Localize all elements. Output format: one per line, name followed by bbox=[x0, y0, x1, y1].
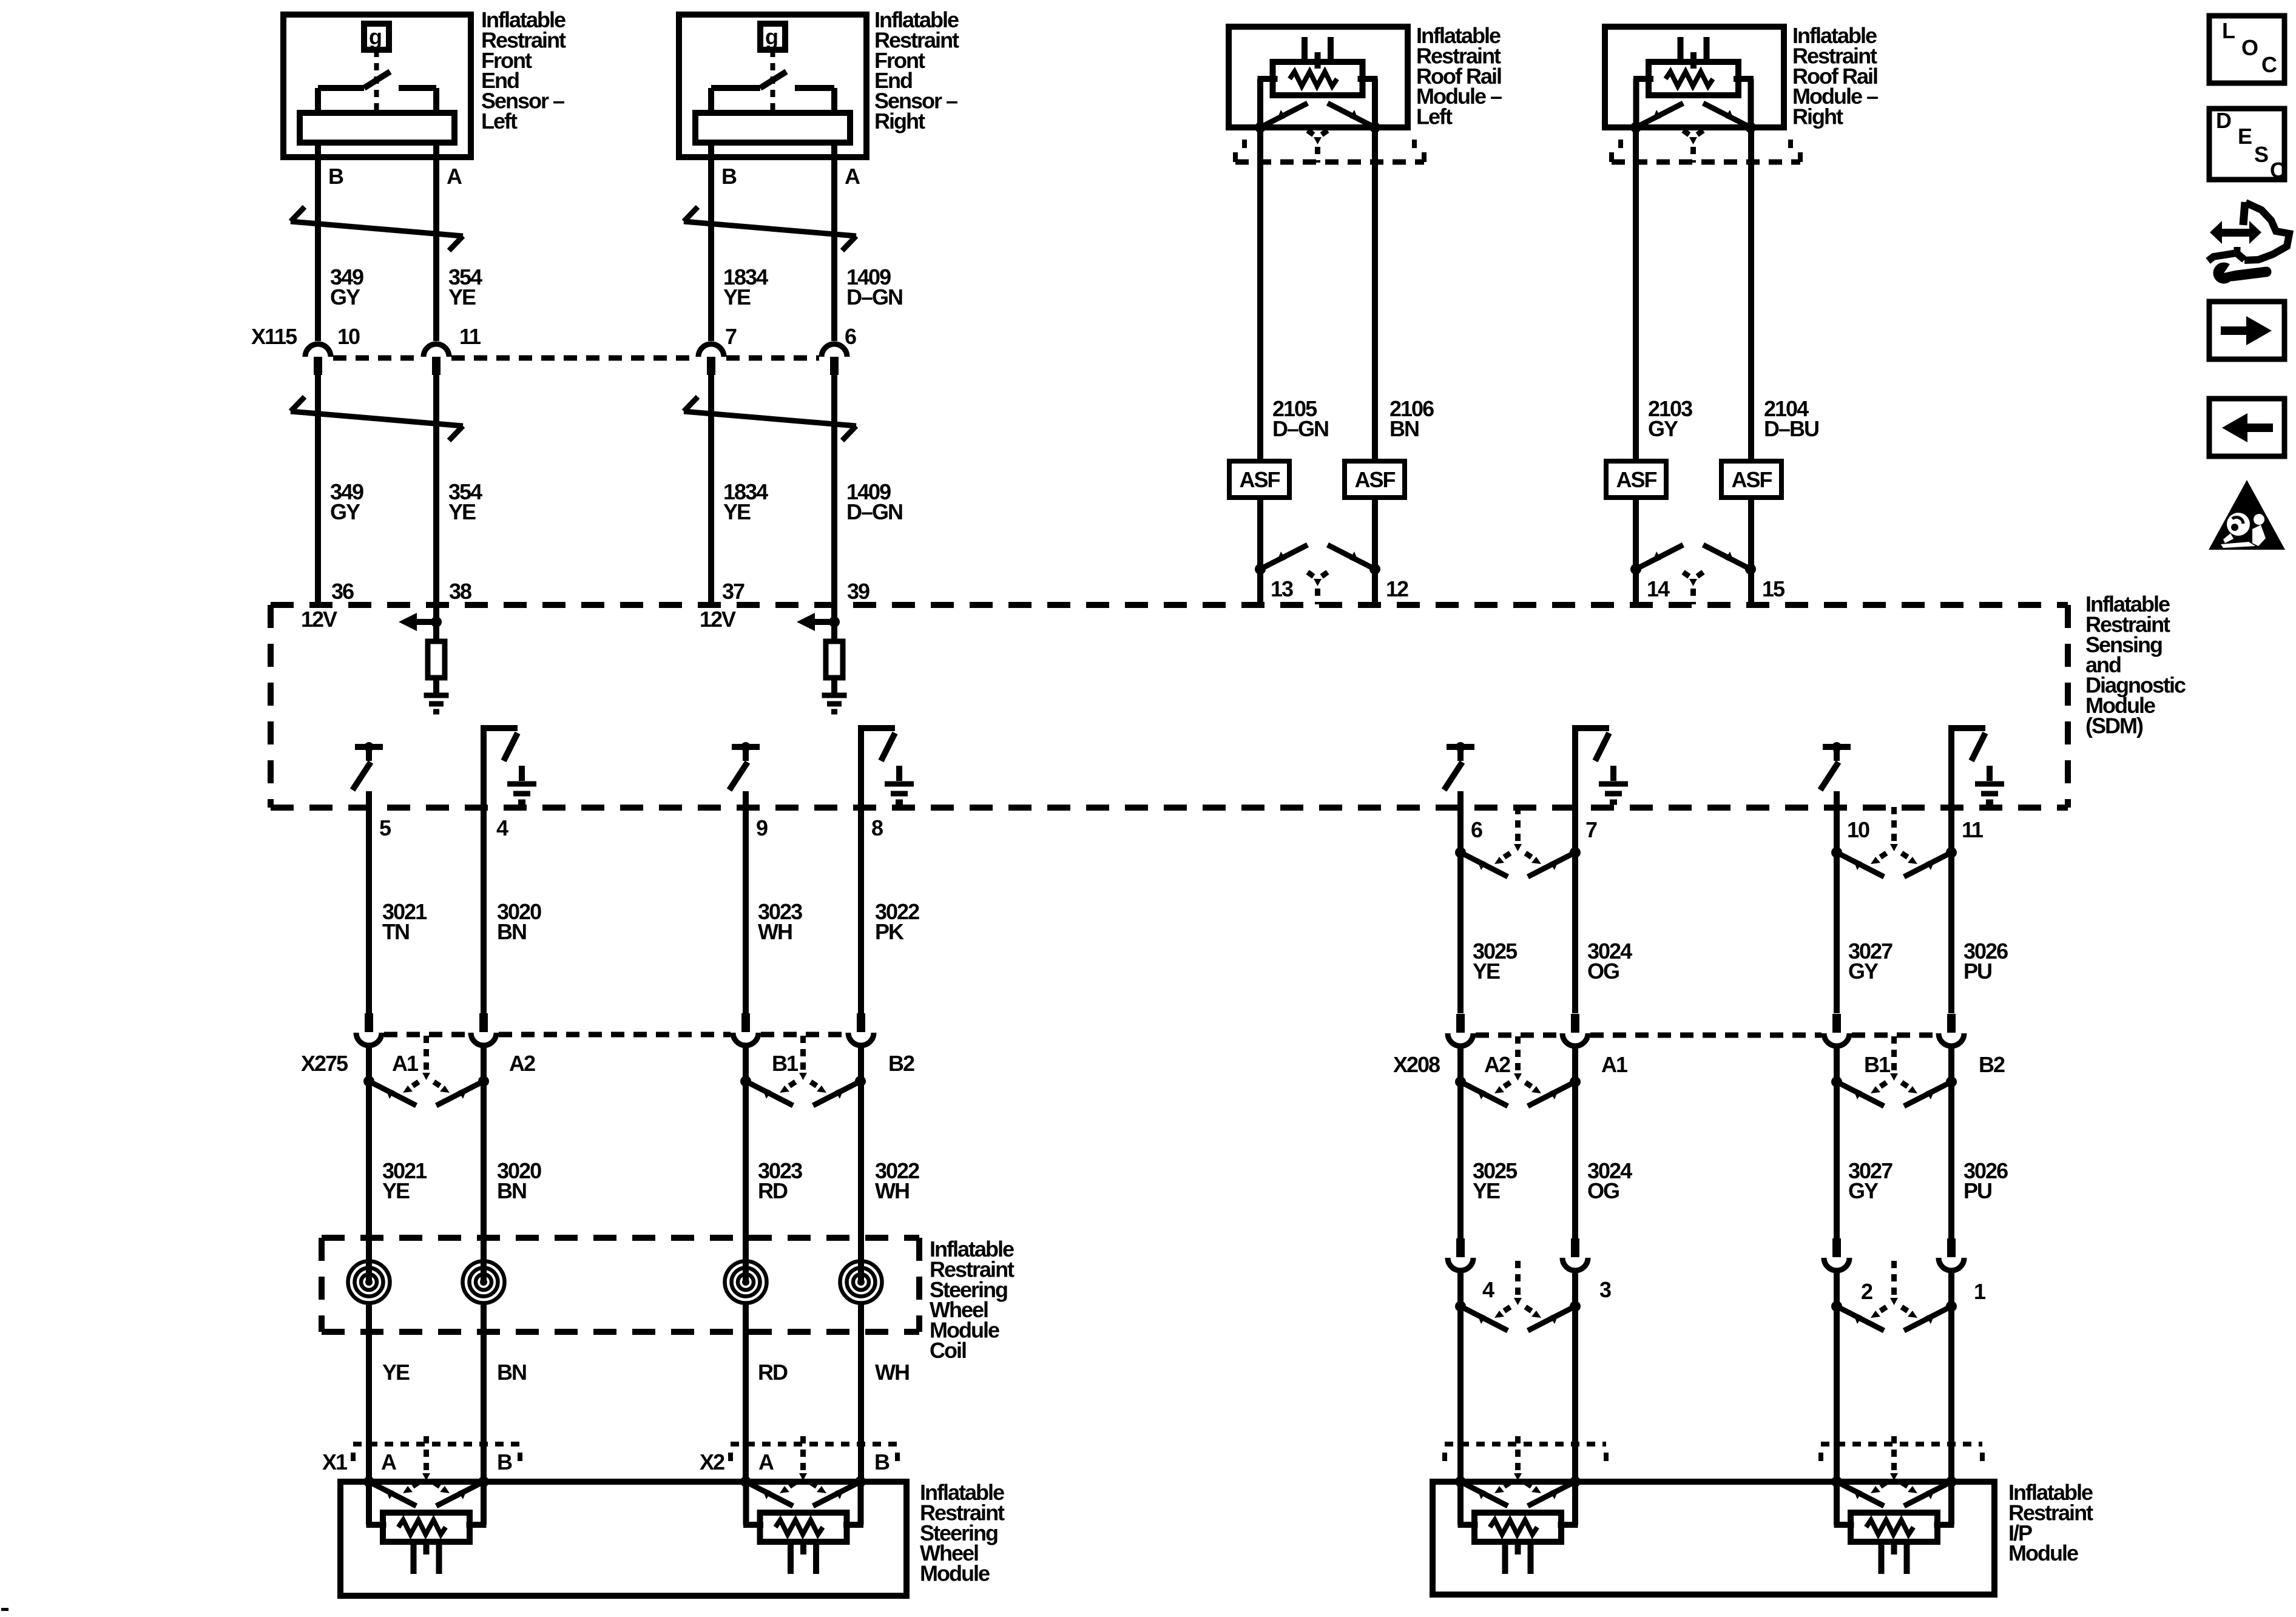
terminal pair at X1 (steering wheel module) bbox=[363, 1436, 489, 1506]
wire 3026 PU lower segment bbox=[1948, 1048, 1954, 1238]
svg-text:B: B bbox=[721, 164, 737, 189]
wire 3020 BN (X275 A2 down) bbox=[481, 1047, 487, 1482]
connector terminal pin 2 (I/P harness) bbox=[1824, 1238, 1849, 1271]
terminal pair above SDM pins 13/12 bbox=[1255, 545, 1380, 604]
clockspring coil on wire 3021 bbox=[346, 1260, 392, 1305]
node: junction on wire 354 at SDM 12V feed bbox=[431, 616, 442, 627]
SDM switch to ground above pin 4 bbox=[481, 728, 536, 808]
wire 349 GY upper segment (left sensor pin B to X115 pin 10) bbox=[315, 143, 321, 341]
icon box DESC bbox=[2209, 109, 2284, 180]
driver squib, steering wheel module circuit 2 bbox=[743, 1482, 863, 1574]
svg-text:D–GN: D–GN bbox=[1272, 416, 1328, 441]
svg-text:PK: PK bbox=[875, 919, 904, 944]
svg-text:Module: Module bbox=[920, 1561, 990, 1586]
component box: Inflatable Restraint Roof Rail Module - Left bbox=[1229, 27, 1408, 127]
svg-text:PU: PU bbox=[1963, 1178, 1991, 1203]
svg-text:39: 39 bbox=[847, 579, 869, 604]
ASF shorting bar on wire 2105 bbox=[1229, 461, 1289, 498]
wire 3022 WH (X275 B2 down) bbox=[858, 1047, 864, 1482]
svg-text:YE: YE bbox=[448, 285, 476, 309]
wire 2103 GY (right roof rail to ASF) bbox=[1633, 127, 1639, 461]
svg-text:PU: PU bbox=[1963, 959, 1991, 984]
svg-text:B: B bbox=[874, 1450, 890, 1474]
svg-text:12V: 12V bbox=[301, 607, 337, 632]
dashed box: Inflatable Restraint Steering Wheel Module Coil bbox=[322, 1235, 919, 1241]
connector X208 terminal B2 bbox=[1939, 1014, 1964, 1046]
switch contact, left front end sensor bbox=[318, 85, 364, 91]
terminal pair below X208 A2/A1 bbox=[1455, 1036, 1581, 1106]
wire 3021 YE (X275 A1 down) bbox=[366, 1047, 372, 1482]
dashed actuation line, left front end sensor bbox=[374, 50, 379, 111]
SDM module dashed boundary top edge bbox=[271, 602, 2068, 608]
svg-text:X1: X1 bbox=[322, 1450, 348, 1474]
SDM deployment loop switch above pin 5 bbox=[353, 742, 383, 790]
X115 in-line connector dashed line bbox=[333, 356, 421, 361]
wire from pin 4 to I/P module bbox=[1457, 1272, 1464, 1482]
wire 3027 GY lower segment bbox=[1834, 1048, 1840, 1238]
ASF shorting bar on wire 2106 bbox=[1345, 461, 1405, 498]
svg-text:4: 4 bbox=[1482, 1277, 1494, 1302]
wire 2105 D-GN (left roof rail to ASF) bbox=[1257, 127, 1263, 461]
svg-text:D–GN: D–GN bbox=[846, 499, 902, 524]
harness break symbol over lower wires 1834/1409 bbox=[684, 397, 856, 441]
connector X275 terminal A1 bbox=[356, 1013, 382, 1045]
svg-text:D–BU: D–BU bbox=[1764, 416, 1818, 441]
connector X2 dotted outline bbox=[731, 1442, 897, 1447]
connector terminal pin 1 (I/P harness) bbox=[1939, 1238, 1964, 1271]
riser wires to connector bar, right front end sensor bbox=[708, 88, 714, 113]
wire 2105 lower segment to SDM pin 13 bbox=[1257, 498, 1263, 605]
connector X115 terminal pin 6 bbox=[822, 344, 847, 375]
wire 354 YE lower segment (X115 pin 11 to SDM pin 38) bbox=[433, 374, 439, 622]
svg-text:B1: B1 bbox=[772, 1051, 799, 1076]
svg-text:36: 36 bbox=[331, 579, 354, 604]
resistor in SDM on wire 354 sense line bbox=[433, 622, 439, 641]
icon box right arrow bbox=[2209, 302, 2284, 359]
component box: Inflatable Restraint Front End Sensor - Left bbox=[283, 15, 471, 157]
wire 1834 YE upper segment (right sensor pin B to X115 pin 7) bbox=[708, 143, 714, 341]
icon: harness routing double arrow with wrench bbox=[2210, 221, 2222, 244]
12V feed arrow (left) bbox=[417, 619, 436, 625]
connector X115 terminal pin 10 bbox=[305, 344, 331, 375]
svg-text:BN: BN bbox=[497, 1360, 526, 1385]
harness break symbol over wires 1834/1409 bbox=[684, 207, 856, 251]
harness break symbol over lower wires 349/354 bbox=[291, 397, 463, 441]
svg-text:6: 6 bbox=[1471, 817, 1482, 842]
SDM deployment loop switch above pin 6 bbox=[1444, 742, 1474, 790]
svg-text:A1: A1 bbox=[1601, 1052, 1628, 1077]
svg-text:Left: Left bbox=[1416, 104, 1453, 129]
driver squib, I/P module circuit 2 bbox=[1834, 1482, 1954, 1574]
connector X115 terminal pin 11 bbox=[424, 344, 449, 375]
svg-text:RD: RD bbox=[758, 1360, 788, 1385]
riser wires to connector bar, left front end sensor bbox=[315, 88, 321, 113]
wire 2106 BN (left roof rail to ASF) bbox=[1372, 127, 1378, 461]
svg-text:GY: GY bbox=[1848, 1178, 1879, 1203]
svg-text:38: 38 bbox=[449, 579, 471, 604]
svg-text:C: C bbox=[2261, 52, 2277, 77]
svg-text:X208: X208 bbox=[1393, 1052, 1440, 1077]
SDM module dashed boundary right edge bbox=[2065, 605, 2071, 808]
wire 349 GY lower segment (X115 pin 10 to SDM pin 36) bbox=[315, 374, 321, 605]
SDM deployment loop switch above pin 10 bbox=[1820, 742, 1851, 790]
clockspring coil on wire 3020 bbox=[461, 1260, 507, 1305]
wire 1409 D-GN upper segment (right sensor pin A to X115 pin 6) bbox=[831, 143, 837, 341]
SDM module dashed boundary left edge bbox=[268, 605, 274, 808]
X208 in-line connector dashed line bbox=[1476, 1033, 1560, 1038]
squib igniter, left roof rail module bbox=[1258, 37, 1378, 127]
svg-text:A: A bbox=[845, 164, 860, 189]
g-sensor element in right front end sensor bbox=[760, 24, 785, 50]
terminal pair above SDM pins 14/15 bbox=[1630, 545, 1756, 604]
SDM switch to ground above pin 7 bbox=[1572, 728, 1628, 808]
wire 3025 YE lower segment bbox=[1457, 1048, 1464, 1238]
connector X275 terminal B1 bbox=[733, 1013, 758, 1045]
connector bar, left front end sensor bbox=[300, 113, 454, 143]
svg-text:TN: TN bbox=[382, 919, 409, 944]
svg-text:S: S bbox=[2254, 142, 2268, 167]
svg-text:g: g bbox=[369, 24, 381, 49]
wire 3026 PU (SDM pin 11 to X208 B2) bbox=[1948, 726, 1954, 1013]
terminal pair below SDM pins 6/7 bbox=[1455, 807, 1581, 877]
terminal pair below pins 2/1 bbox=[1831, 1261, 1957, 1331]
svg-text:B1: B1 bbox=[1864, 1052, 1891, 1077]
svg-text:Left: Left bbox=[481, 109, 518, 133]
svg-text:2: 2 bbox=[1861, 1279, 1872, 1304]
svg-text:Module: Module bbox=[2008, 1541, 2078, 1565]
svg-text:BN: BN bbox=[497, 1178, 526, 1203]
wire 2104 lower segment to SDM pin 15 bbox=[1748, 498, 1754, 605]
wire 3025 YE (SDM pin 6 to X208 A2) bbox=[1457, 791, 1464, 1013]
svg-text:12: 12 bbox=[1386, 576, 1408, 601]
svg-text:4: 4 bbox=[496, 815, 508, 840]
svg-text:13: 13 bbox=[1271, 576, 1293, 601]
svg-text:10: 10 bbox=[1847, 817, 1869, 842]
X275 in-line connector dashed line bbox=[384, 1032, 468, 1038]
svg-text:YE: YE bbox=[723, 285, 751, 309]
terminal pair at I/P module connector 1 bbox=[1455, 1436, 1581, 1506]
connector X1 dotted outline bbox=[353, 1442, 520, 1447]
svg-text:GY: GY bbox=[1848, 959, 1879, 984]
svg-text:WH: WH bbox=[875, 1360, 909, 1385]
svg-text:YE: YE bbox=[1473, 959, 1500, 984]
wire 3022 PK (SDM pin 8 to X275 B2) bbox=[858, 726, 864, 1013]
svg-text:7: 7 bbox=[725, 324, 737, 349]
wire 3027 GY (SDM pin 10 to X208 B1) bbox=[1834, 791, 1840, 1013]
component box: Inflatable Restraint Front End Sensor - Right bbox=[679, 15, 866, 157]
connector X115 terminal pin 7 bbox=[698, 344, 724, 375]
connector X275 terminal A2 bbox=[471, 1013, 496, 1045]
wire 3024 OG lower segment bbox=[1572, 1048, 1578, 1238]
terminal pair at I/P module connector 2 bbox=[1831, 1436, 1957, 1506]
svg-text:GY: GY bbox=[330, 285, 360, 309]
svg-text:YE: YE bbox=[448, 499, 476, 524]
svg-text:L: L bbox=[2222, 18, 2235, 43]
svg-text:WH: WH bbox=[758, 919, 792, 944]
SDM module dashed boundary bottom edge bbox=[271, 805, 2068, 811]
12V feed arrow (right) bbox=[815, 619, 834, 625]
svg-text:B: B bbox=[328, 164, 343, 189]
svg-text:D: D bbox=[2216, 108, 2231, 133]
svg-text:Coil: Coil bbox=[930, 1338, 966, 1363]
terminal pair at X2 (steering wheel module) bbox=[740, 1436, 866, 1506]
svg-text:YE: YE bbox=[382, 1178, 410, 1203]
connector X208 terminal A1 bbox=[1562, 1014, 1588, 1046]
ground symbol inside SDM (right sense resistor) bbox=[831, 678, 837, 695]
wire 3020 BN (SDM pin 4 to X275 A2) bbox=[481, 726, 487, 1013]
svg-text:11: 11 bbox=[1962, 817, 1984, 842]
svg-text:A: A bbox=[447, 164, 462, 189]
icon box left arrow bbox=[2209, 399, 2284, 456]
svg-text:YE: YE bbox=[723, 499, 751, 524]
svg-text:OG: OG bbox=[1587, 959, 1619, 984]
svg-text:6: 6 bbox=[845, 324, 856, 349]
svg-text:12V: 12V bbox=[700, 607, 736, 632]
terminal pair below X208 B1/B2 bbox=[1831, 1036, 1957, 1106]
wire from pin 2 to I/P module bbox=[1834, 1272, 1840, 1482]
wire from pin 1 to I/P module bbox=[1948, 1272, 1954, 1482]
svg-text:37: 37 bbox=[722, 579, 745, 604]
svg-text:BN: BN bbox=[497, 919, 526, 944]
component box: Inflatable Restraint I/P Module bbox=[1433, 1482, 1994, 1595]
SDM switch to ground above pin 11 bbox=[1948, 728, 2004, 808]
clockspring coil on wire 3023 bbox=[723, 1260, 769, 1305]
svg-text:O: O bbox=[2241, 35, 2258, 60]
svg-text:14: 14 bbox=[1647, 576, 1670, 601]
dashed actuation line, right front end sensor bbox=[771, 50, 775, 111]
svg-text:15: 15 bbox=[1762, 576, 1785, 601]
terminal pair below SDM pins 10/11 bbox=[1831, 807, 1957, 877]
I/P module connector dotted outline (right) bbox=[1821, 1442, 1982, 1447]
icon: airbag warning triangle bbox=[2209, 480, 2285, 550]
svg-text:X115: X115 bbox=[251, 324, 297, 349]
svg-text:X2: X2 bbox=[700, 1450, 724, 1474]
ASF shorting bar on wire 2104 bbox=[1721, 461, 1781, 498]
svg-text:RD: RD bbox=[758, 1178, 788, 1203]
svg-text:9: 9 bbox=[756, 815, 768, 840]
svg-text:A2: A2 bbox=[1484, 1052, 1510, 1077]
svg-text:8: 8 bbox=[871, 815, 883, 840]
wire 1834 YE lower segment (X115 pin 7 to SDM pin 37) bbox=[708, 374, 714, 605]
ground symbol inside SDM (left sense resistor) bbox=[433, 678, 439, 695]
terminal pair below X275 B1/B2 bbox=[740, 1036, 866, 1106]
svg-text:3: 3 bbox=[1599, 1277, 1611, 1302]
driver squib, steering wheel module circuit 1 bbox=[366, 1482, 487, 1574]
connector terminal pin 4 (I/P harness) bbox=[1448, 1238, 1473, 1271]
component box: Inflatable Restraint Steering Wheel Module bbox=[340, 1482, 907, 1596]
svg-text:YE: YE bbox=[1473, 1178, 1500, 1203]
clockspring coil on wire 3022 bbox=[839, 1260, 884, 1305]
svg-text:B2: B2 bbox=[1979, 1052, 2005, 1077]
connector terminal pin 3 (I/P harness) bbox=[1562, 1238, 1588, 1271]
svg-text:OG: OG bbox=[1587, 1178, 1619, 1203]
g-sensor element in left front end sensor bbox=[364, 24, 389, 50]
svg-text:1: 1 bbox=[1974, 1279, 1986, 1304]
svg-text:A: A bbox=[381, 1450, 397, 1474]
svg-text:11: 11 bbox=[459, 324, 481, 349]
svg-text:C: C bbox=[2270, 158, 2286, 183]
svg-text:A1: A1 bbox=[392, 1051, 419, 1076]
ASF shorting bar on wire 2103 bbox=[1606, 461, 1666, 498]
svg-text:B: B bbox=[497, 1450, 512, 1474]
connector X208 terminal A2 bbox=[1448, 1014, 1473, 1046]
svg-text:A: A bbox=[758, 1450, 774, 1474]
svg-text:7: 7 bbox=[1585, 817, 1597, 842]
terminal pair below pins 4/3 bbox=[1455, 1261, 1581, 1331]
svg-text:GY: GY bbox=[330, 499, 360, 524]
wire 354 YE upper segment (left sensor pin A to X115 pin 11) bbox=[433, 143, 439, 341]
in-line connector dotted box below right roof rail module bbox=[1618, 140, 1623, 150]
svg-text:E: E bbox=[2238, 124, 2252, 149]
squib igniter, right roof rail module bbox=[1633, 37, 1754, 127]
wire 2106 lower segment to SDM pin 12 bbox=[1372, 498, 1378, 605]
svg-text:B2: B2 bbox=[888, 1051, 914, 1076]
svg-text:X275: X275 bbox=[301, 1051, 348, 1076]
svg-text:WH: WH bbox=[875, 1178, 909, 1203]
svg-text:BN: BN bbox=[1389, 416, 1419, 441]
SDM deployment loop switch above pin 9 bbox=[729, 742, 760, 790]
wire 3023 WH (SDM pin 9 to X275 B1) bbox=[743, 791, 749, 1013]
I/P module connector dotted outline (left) bbox=[1445, 1442, 1606, 1447]
svg-text:YE: YE bbox=[382, 1360, 410, 1385]
svg-text:A2: A2 bbox=[509, 1051, 535, 1076]
switch contact, right front end sensor bbox=[711, 85, 760, 91]
svg-text:D–GN: D–GN bbox=[846, 285, 902, 309]
svg-text:Right: Right bbox=[1792, 104, 1843, 129]
wire 2104 D-BU (right roof rail to ASF) bbox=[1748, 127, 1754, 461]
component box: Inflatable Restraint Roof Rail Module - Right bbox=[1605, 27, 1784, 127]
driver squib, I/P module circuit 1 bbox=[1458, 1482, 1578, 1574]
wire 3023 RD (X275 B1 down) bbox=[743, 1047, 749, 1482]
svg-text:5: 5 bbox=[379, 815, 391, 840]
svg-text:(SDM): (SDM) bbox=[2085, 713, 2143, 738]
wire from pin 3 to I/P module bbox=[1572, 1272, 1578, 1482]
resistor in SDM on wire 1409 sense line bbox=[831, 622, 837, 641]
connector bar, right front end sensor bbox=[695, 113, 850, 143]
harness break symbol over wires 349/354 bbox=[291, 207, 463, 251]
connector X275 terminal B2 bbox=[848, 1013, 874, 1045]
in-line connector dotted box below left roof rail module bbox=[1242, 140, 1247, 150]
svg-text:g: g bbox=[765, 24, 777, 49]
icon box LOC bbox=[2209, 16, 2284, 83]
terminal pair below X275 A1/A2 bbox=[363, 1036, 489, 1106]
node: junction on wire 1409 at SDM 12V feed bbox=[829, 616, 840, 627]
SDM switch to ground above pin 8 bbox=[858, 728, 914, 808]
wire 2103 lower segment to SDM pin 14 bbox=[1633, 498, 1639, 605]
svg-text:GY: GY bbox=[1648, 416, 1678, 441]
connector X208 terminal B1 bbox=[1824, 1014, 1849, 1046]
svg-text:Right: Right bbox=[874, 109, 925, 133]
wire 1409 D-GN lower segment (X115 pin 6 to SDM pin 39) bbox=[831, 374, 837, 622]
wire 3024 OG (SDM pin 7 to X208 A1) bbox=[1572, 726, 1578, 1013]
wire 3021 TN (SDM pin 5 to X275 A1) bbox=[366, 791, 372, 1013]
terminal pair at left roof rail module connector bbox=[1255, 103, 1380, 163]
svg-text:10: 10 bbox=[337, 324, 360, 349]
terminal pair at right roof rail module connector bbox=[1630, 103, 1756, 163]
page artifact mark bottom-left bbox=[1, 1608, 8, 1611]
